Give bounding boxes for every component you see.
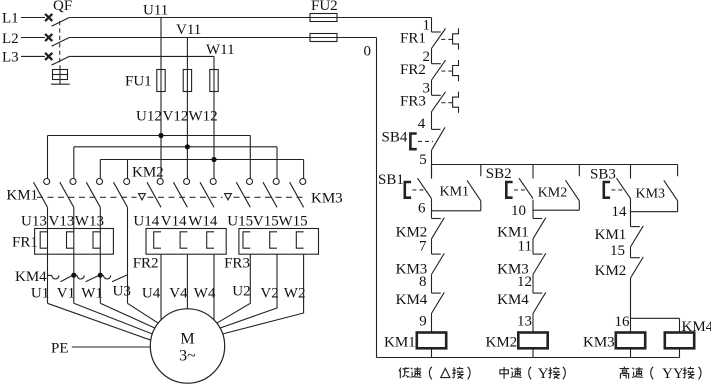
svg-text:KM3: KM3	[636, 187, 666, 202]
wire branch2 11	[532, 239, 534, 254]
motor M	[150, 309, 224, 383]
contactor KM1 main contact 3	[86, 179, 102, 208]
wire coil KM4 to bus	[679, 348, 681, 357]
svg-text:V14: V14	[161, 214, 187, 230]
node 16 tie wire	[631, 317, 680, 319]
interlock contact KM2	[432, 218, 445, 239]
wire U1 vertical upper	[47, 207, 49, 303]
wire SB4 to node 5	[431, 150, 433, 178]
contactor KM1 main contact 4	[114, 179, 130, 208]
wire V4 to motor	[186, 254, 188, 309]
svg-text:KM2: KM2	[595, 263, 627, 279]
interlock contact KM1	[533, 218, 546, 239]
overload relay FR1 heater 3	[93, 232, 100, 248]
svg-text:12: 12	[517, 274, 532, 290]
wire branch1 9	[431, 313, 433, 332]
contactor KM2 main contact 3	[200, 179, 216, 208]
wire W12 right drop	[303, 160, 305, 180]
overload relay FR2 heater 1	[154, 232, 161, 248]
overload relay FR2 heater 3	[207, 232, 214, 248]
svg-text:W14: W14	[188, 214, 218, 230]
svg-text:KM3: KM3	[311, 191, 343, 207]
interlock contact KM3	[533, 253, 546, 274]
node 6 tie wire	[432, 210, 481, 212]
overload relay FR3 heater 3	[296, 232, 303, 248]
wire V1 vertical upper	[73, 207, 75, 303]
wire U11 horizontal	[69, 17, 431, 19]
svg-text:U12: U12	[136, 109, 162, 125]
svg-text:SB3: SB3	[590, 167, 616, 183]
svg-text:FR2: FR2	[133, 256, 159, 272]
svg-text:V2: V2	[260, 286, 278, 302]
svg-text:V1: V1	[57, 286, 75, 302]
svg-text:U2: U2	[232, 284, 250, 300]
wire V1 to motor	[74, 303, 153, 334]
svg-text:FR3: FR3	[224, 256, 250, 272]
button SB2	[506, 178, 533, 198]
svg-text:SB4: SB4	[382, 130, 408, 146]
svg-text:KM4: KM4	[497, 292, 529, 308]
svg-text:V4: V4	[169, 286, 188, 302]
wire W12 mid drop	[127, 160, 129, 180]
wire SB1 top stub	[431, 165, 433, 179]
svg-text:V12: V12	[163, 109, 189, 125]
caption medium speed Y	[500, 367, 508, 379]
svg-text:KM2: KM2	[486, 335, 518, 351]
svg-text:L1: L1	[2, 11, 19, 27]
wire W1 vertical upper	[99, 207, 101, 303]
contactor KM2 main contact 1	[147, 179, 163, 208]
svg-text:16: 16	[615, 314, 631, 330]
svg-text:Y: Y	[673, 366, 684, 382]
contactor KM3 main contact 1	[236, 179, 252, 208]
svg-text:KM1: KM1	[440, 185, 470, 200]
svg-text:KM3: KM3	[583, 335, 615, 351]
wire branch3 node14 down	[630, 199, 632, 227]
svg-text:U4: U4	[142, 286, 161, 302]
wire control rail top	[431, 18, 433, 33]
svg-text:FR3: FR3	[400, 94, 426, 110]
svg-text:KM2: KM2	[132, 165, 164, 181]
wire 0 vertical	[376, 38, 378, 358]
wire U3 vertical	[127, 207, 129, 303]
wire U2 to motor	[217, 254, 251, 323]
svg-text:L3: L3	[2, 50, 19, 66]
svg-text:6: 6	[418, 201, 426, 217]
contactor KM3 auxiliary contact	[664, 165, 678, 212]
overload relay FR1 box	[35, 229, 114, 255]
svg-text:V13: V13	[49, 214, 75, 230]
svg-text:KM1: KM1	[384, 335, 416, 351]
svg-text:W15: W15	[279, 214, 308, 230]
breaker QF mechanism base	[51, 83, 70, 85]
contactor KM4 contact 3	[100, 274, 103, 276]
wire branch2 13	[532, 313, 534, 332]
coil KM3	[616, 333, 645, 349]
wire U3 to motor	[128, 303, 159, 323]
wire U12 left drop	[47, 136, 49, 180]
button SB3	[604, 178, 631, 198]
overload contact FR2	[432, 60, 459, 81]
svg-text:W4: W4	[194, 286, 216, 302]
svg-text:7: 7	[419, 239, 427, 255]
wire branch3 16 down	[630, 278, 632, 333]
interlock contact KM1	[631, 226, 644, 247]
caption high speed YY	[620, 367, 630, 379]
bus bottom 0	[377, 357, 680, 359]
interlock contact KM3	[432, 253, 445, 274]
breaker QF pole 3 terminal	[45, 53, 52, 60]
junction U12	[158, 133, 163, 138]
svg-text:Y: Y	[538, 366, 549, 382]
svg-text:FR2: FR2	[400, 62, 426, 78]
overload relay FR3 heater 2	[270, 232, 277, 248]
overload relay FR3 heater 1	[243, 232, 250, 248]
wire U11 vertical	[160, 18, 162, 180]
svg-text:U3: U3	[113, 284, 131, 300]
wire L1 to QF	[21, 17, 45, 19]
contactor KM1 main contact 1	[34, 179, 50, 208]
svg-text:SB1: SB1	[378, 172, 404, 188]
svg-text:SB2: SB2	[486, 166, 512, 182]
svg-text:W12: W12	[189, 109, 218, 125]
svg-text:U15: U15	[227, 214, 253, 230]
svg-text:V11: V11	[176, 22, 201, 38]
wire W12 left drop	[99, 160, 101, 180]
wire FR2-FR3	[431, 80, 433, 95]
overload contact FR3	[432, 92, 459, 113]
wire L3 to QF	[21, 55, 45, 57]
linkage marker triangle 2	[225, 194, 232, 200]
bus U12	[48, 135, 251, 137]
wire SB2 top stub	[532, 165, 534, 179]
svg-text:13: 13	[517, 314, 532, 330]
svg-text:KM2: KM2	[538, 186, 568, 201]
contactor KM1 auxiliary contact	[467, 165, 481, 211]
svg-text:U13: U13	[21, 214, 47, 230]
overload relay FR2 box	[146, 229, 226, 255]
svg-text:KM4: KM4	[15, 269, 47, 285]
svg-text:11: 11	[518, 239, 532, 255]
fuse FU2 element 1	[310, 14, 337, 22]
coil KM4	[665, 333, 694, 349]
wire V2 to motor	[220, 254, 277, 328]
wire coil KM2 to bus	[532, 348, 534, 357]
svg-text:PE: PE	[51, 341, 69, 357]
wire coil KM1 to bus	[431, 348, 433, 357]
svg-text:4: 4	[418, 116, 426, 132]
wire SB3 top stub	[630, 165, 632, 179]
svg-text:5: 5	[419, 152, 427, 168]
overload relay FR2 heater 2	[180, 232, 187, 248]
contactor KM3 main contact 2	[263, 179, 279, 208]
svg-text:KM1: KM1	[6, 188, 38, 204]
svg-text:FR1: FR1	[400, 31, 426, 47]
svg-text:W2: W2	[284, 286, 306, 302]
overload relay FR1 heater 2	[67, 232, 74, 248]
svg-text:V15: V15	[253, 214, 279, 230]
overload contact FR1	[432, 28, 459, 49]
wire W4 to motor	[213, 254, 215, 320]
junction W1	[98, 273, 103, 278]
breaker QF pole 2 terminal	[45, 34, 52, 41]
svg-text:W13: W13	[75, 214, 104, 230]
coil KM2	[518, 333, 547, 349]
svg-text:U11: U11	[143, 3, 168, 19]
wire branch1 7	[431, 239, 433, 254]
button SB4	[410, 127, 445, 150]
svg-text:8: 8	[419, 274, 427, 290]
contactor KM3 main contact 3	[290, 179, 306, 208]
overload relay FR3 box	[239, 229, 319, 255]
wire W1 to motor	[100, 303, 155, 328]
junction V1	[71, 273, 76, 278]
svg-text:L2: L2	[2, 31, 19, 47]
svg-text:U14: U14	[133, 214, 159, 230]
svg-text:FU1: FU1	[125, 74, 152, 90]
breaker QF mechanism shaft	[59, 65, 61, 84]
junction V12	[185, 144, 190, 149]
svg-text:M: M	[180, 331, 194, 348]
svg-text:W1: W1	[81, 286, 103, 302]
wire branch3 15	[630, 247, 632, 258]
svg-text:W11: W11	[206, 42, 235, 58]
wire V11 vertical	[186, 38, 188, 180]
svg-text:10: 10	[511, 203, 526, 219]
breaker QF pole 1 blade	[52, 18, 70, 27]
contactor KM2 main contact 2	[173, 179, 189, 208]
wire W11 horizontal	[69, 55, 214, 57]
bus node 5	[432, 164, 678, 166]
breaker QF linkage	[59, 21, 61, 66]
wire W11 vertical	[213, 56, 215, 179]
wire FR3-SB4	[431, 112, 433, 130]
svg-text:QF: QF	[53, 0, 72, 14]
wire KM4 coil drop	[679, 318, 681, 332]
coil KM1	[417, 333, 446, 349]
contactor KM1 main contact 2	[60, 179, 76, 208]
contactor KM4 contact 2	[74, 274, 77, 276]
svg-text:KM1: KM1	[595, 227, 627, 243]
node 10 tie wire	[533, 209, 579, 211]
wire V12 left drop	[73, 147, 75, 179]
svg-text:U1: U1	[31, 286, 49, 302]
svg-text:3~: 3~	[179, 348, 196, 365]
wire V12 right drop	[276, 147, 278, 179]
linkage marker triangle 1	[139, 194, 146, 200]
svg-text:14: 14	[612, 204, 628, 220]
wire coil KM3 to bus	[630, 348, 632, 357]
wire V11 horizontal	[69, 37, 376, 39]
wire branch1 8	[431, 274, 433, 293]
wire branch2 12	[532, 274, 534, 293]
linkage dashed line	[37, 196, 137, 198]
interlock contact KM2	[631, 257, 644, 278]
breaker QF pole 3 blade	[52, 56, 70, 65]
svg-text:KM4: KM4	[396, 292, 428, 308]
svg-text:15: 15	[610, 243, 625, 259]
node 14 tie wire	[631, 211, 678, 213]
button SB1	[405, 178, 432, 198]
breaker QF mechanism box	[53, 70, 68, 80]
svg-text:9: 9	[419, 314, 427, 330]
breaker QF pole 1 terminal	[45, 14, 52, 21]
svg-text:Y: Y	[662, 366, 673, 382]
wire FR1-FR2	[431, 48, 433, 63]
svg-text:0: 0	[364, 44, 372, 60]
interlock contact KM4	[533, 292, 546, 313]
bus V12	[74, 146, 277, 148]
junction W12	[211, 157, 216, 162]
svg-text:FU2: FU2	[311, 0, 338, 14]
wire branch2 node10 down	[532, 200, 534, 219]
wire PE	[72, 346, 151, 348]
fuse FU2 element 2	[310, 34, 337, 42]
overload relay FR1 heater 1	[40, 232, 47, 248]
fuse FU1 element 1	[157, 70, 165, 92]
wire U1 to motor	[48, 303, 151, 340]
bus W12	[100, 159, 303, 161]
contactor KM4 contact 1	[48, 274, 52, 276]
interlock contact KM4	[432, 292, 445, 313]
fuse FU1 element 2	[183, 70, 191, 92]
wire branch1 node6 down	[431, 199, 433, 219]
fuse FU1 element 3	[210, 70, 218, 92]
caption low speed delta	[399, 368, 401, 379]
wire W2 to motor	[223, 254, 304, 334]
wire U4 to motor	[160, 254, 162, 320]
wire L2 to QF	[21, 37, 45, 39]
wire U12 right drop	[249, 136, 251, 180]
svg-text:FR1: FR1	[12, 235, 38, 251]
breaker QF pole 2 blade	[52, 38, 70, 47]
contactor KM2 auxiliary contact	[566, 165, 580, 211]
